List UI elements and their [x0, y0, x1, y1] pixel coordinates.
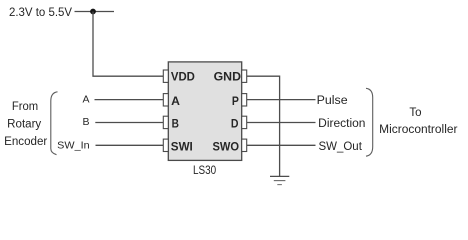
node SW_Out label — [319, 141, 363, 153]
pin B box — [163, 116, 168, 128]
brace right microcontroller group — [366, 88, 373, 156]
pin SWO box — [242, 139, 247, 151]
pin label GND — [214, 70, 242, 84]
pin GND box — [242, 70, 247, 82]
pin SWI box — [163, 139, 168, 151]
svg-text:Encoder: Encoder — [4, 136, 47, 148]
IC U1 LS30 body — [168, 62, 241, 160]
pin P box — [242, 94, 247, 106]
svg-text:2.3V to 5.5V: 2.3V to 5.5V — [9, 5, 72, 19]
label From Rotary Encoder — [4, 101, 47, 148]
svg-text:VDD: VDD — [171, 70, 195, 84]
svg-text:P: P — [232, 94, 239, 108]
wire Pulse output — [247, 99, 316, 101]
pin D box — [242, 116, 247, 128]
brace left rotary encoder group — [51, 92, 58, 155]
ground symbol — [270, 176, 289, 184]
wire Direction output — [247, 122, 316, 124]
label LS30 part number — [193, 163, 216, 177]
node Pulse label — [317, 95, 348, 107]
label supply voltage 2.3V to 5.5V — [9, 5, 72, 19]
svg-text:Direction: Direction — [318, 118, 365, 130]
pin A box — [163, 94, 168, 106]
wire supply down to VDD pin — [93, 12, 163, 77]
node SW_In label — [57, 140, 90, 152]
node A input label — [82, 93, 89, 105]
wire B input — [95, 122, 163, 124]
wire A input — [95, 99, 164, 101]
pin label A pin 2 — [171, 94, 180, 108]
svg-text:Rotary: Rotary — [7, 119, 41, 131]
svg-text:SWO: SWO — [213, 139, 240, 153]
pin label SWI — [171, 139, 193, 153]
node Direction label — [318, 118, 365, 130]
svg-text:B: B — [172, 116, 180, 130]
svg-text:A: A — [171, 94, 180, 108]
node supply junction dot — [90, 9, 96, 15]
svg-text:D: D — [231, 116, 239, 130]
wire SW_Out output — [247, 144, 316, 146]
pin label VDD — [171, 70, 195, 84]
pin label P — [232, 94, 239, 108]
pin VDD box — [163, 70, 168, 82]
svg-text:SW_Out: SW_Out — [319, 141, 363, 153]
svg-text:GND: GND — [214, 70, 242, 84]
svg-text:LS30: LS30 — [193, 163, 216, 177]
svg-text:Microcontroller: Microcontroller — [379, 124, 457, 136]
label To Microcontroller — [379, 107, 457, 136]
svg-text:SW_In: SW_In — [57, 140, 90, 152]
svg-text:To: To — [409, 107, 421, 119]
wire GND down to ground — [247, 76, 280, 176]
pin label B pin 3 — [172, 116, 180, 130]
pin label D — [231, 116, 239, 130]
svg-text:B: B — [82, 116, 89, 128]
svg-text:A: A — [82, 93, 89, 105]
pin label SWO — [213, 139, 240, 153]
svg-text:From: From — [12, 101, 38, 113]
svg-text:Pulse: Pulse — [317, 95, 348, 107]
wire SW_In — [96, 144, 164, 146]
node B input label — [82, 116, 89, 128]
svg-text:SWI: SWI — [171, 139, 193, 153]
wire supply horizontal — [75, 11, 115, 13]
